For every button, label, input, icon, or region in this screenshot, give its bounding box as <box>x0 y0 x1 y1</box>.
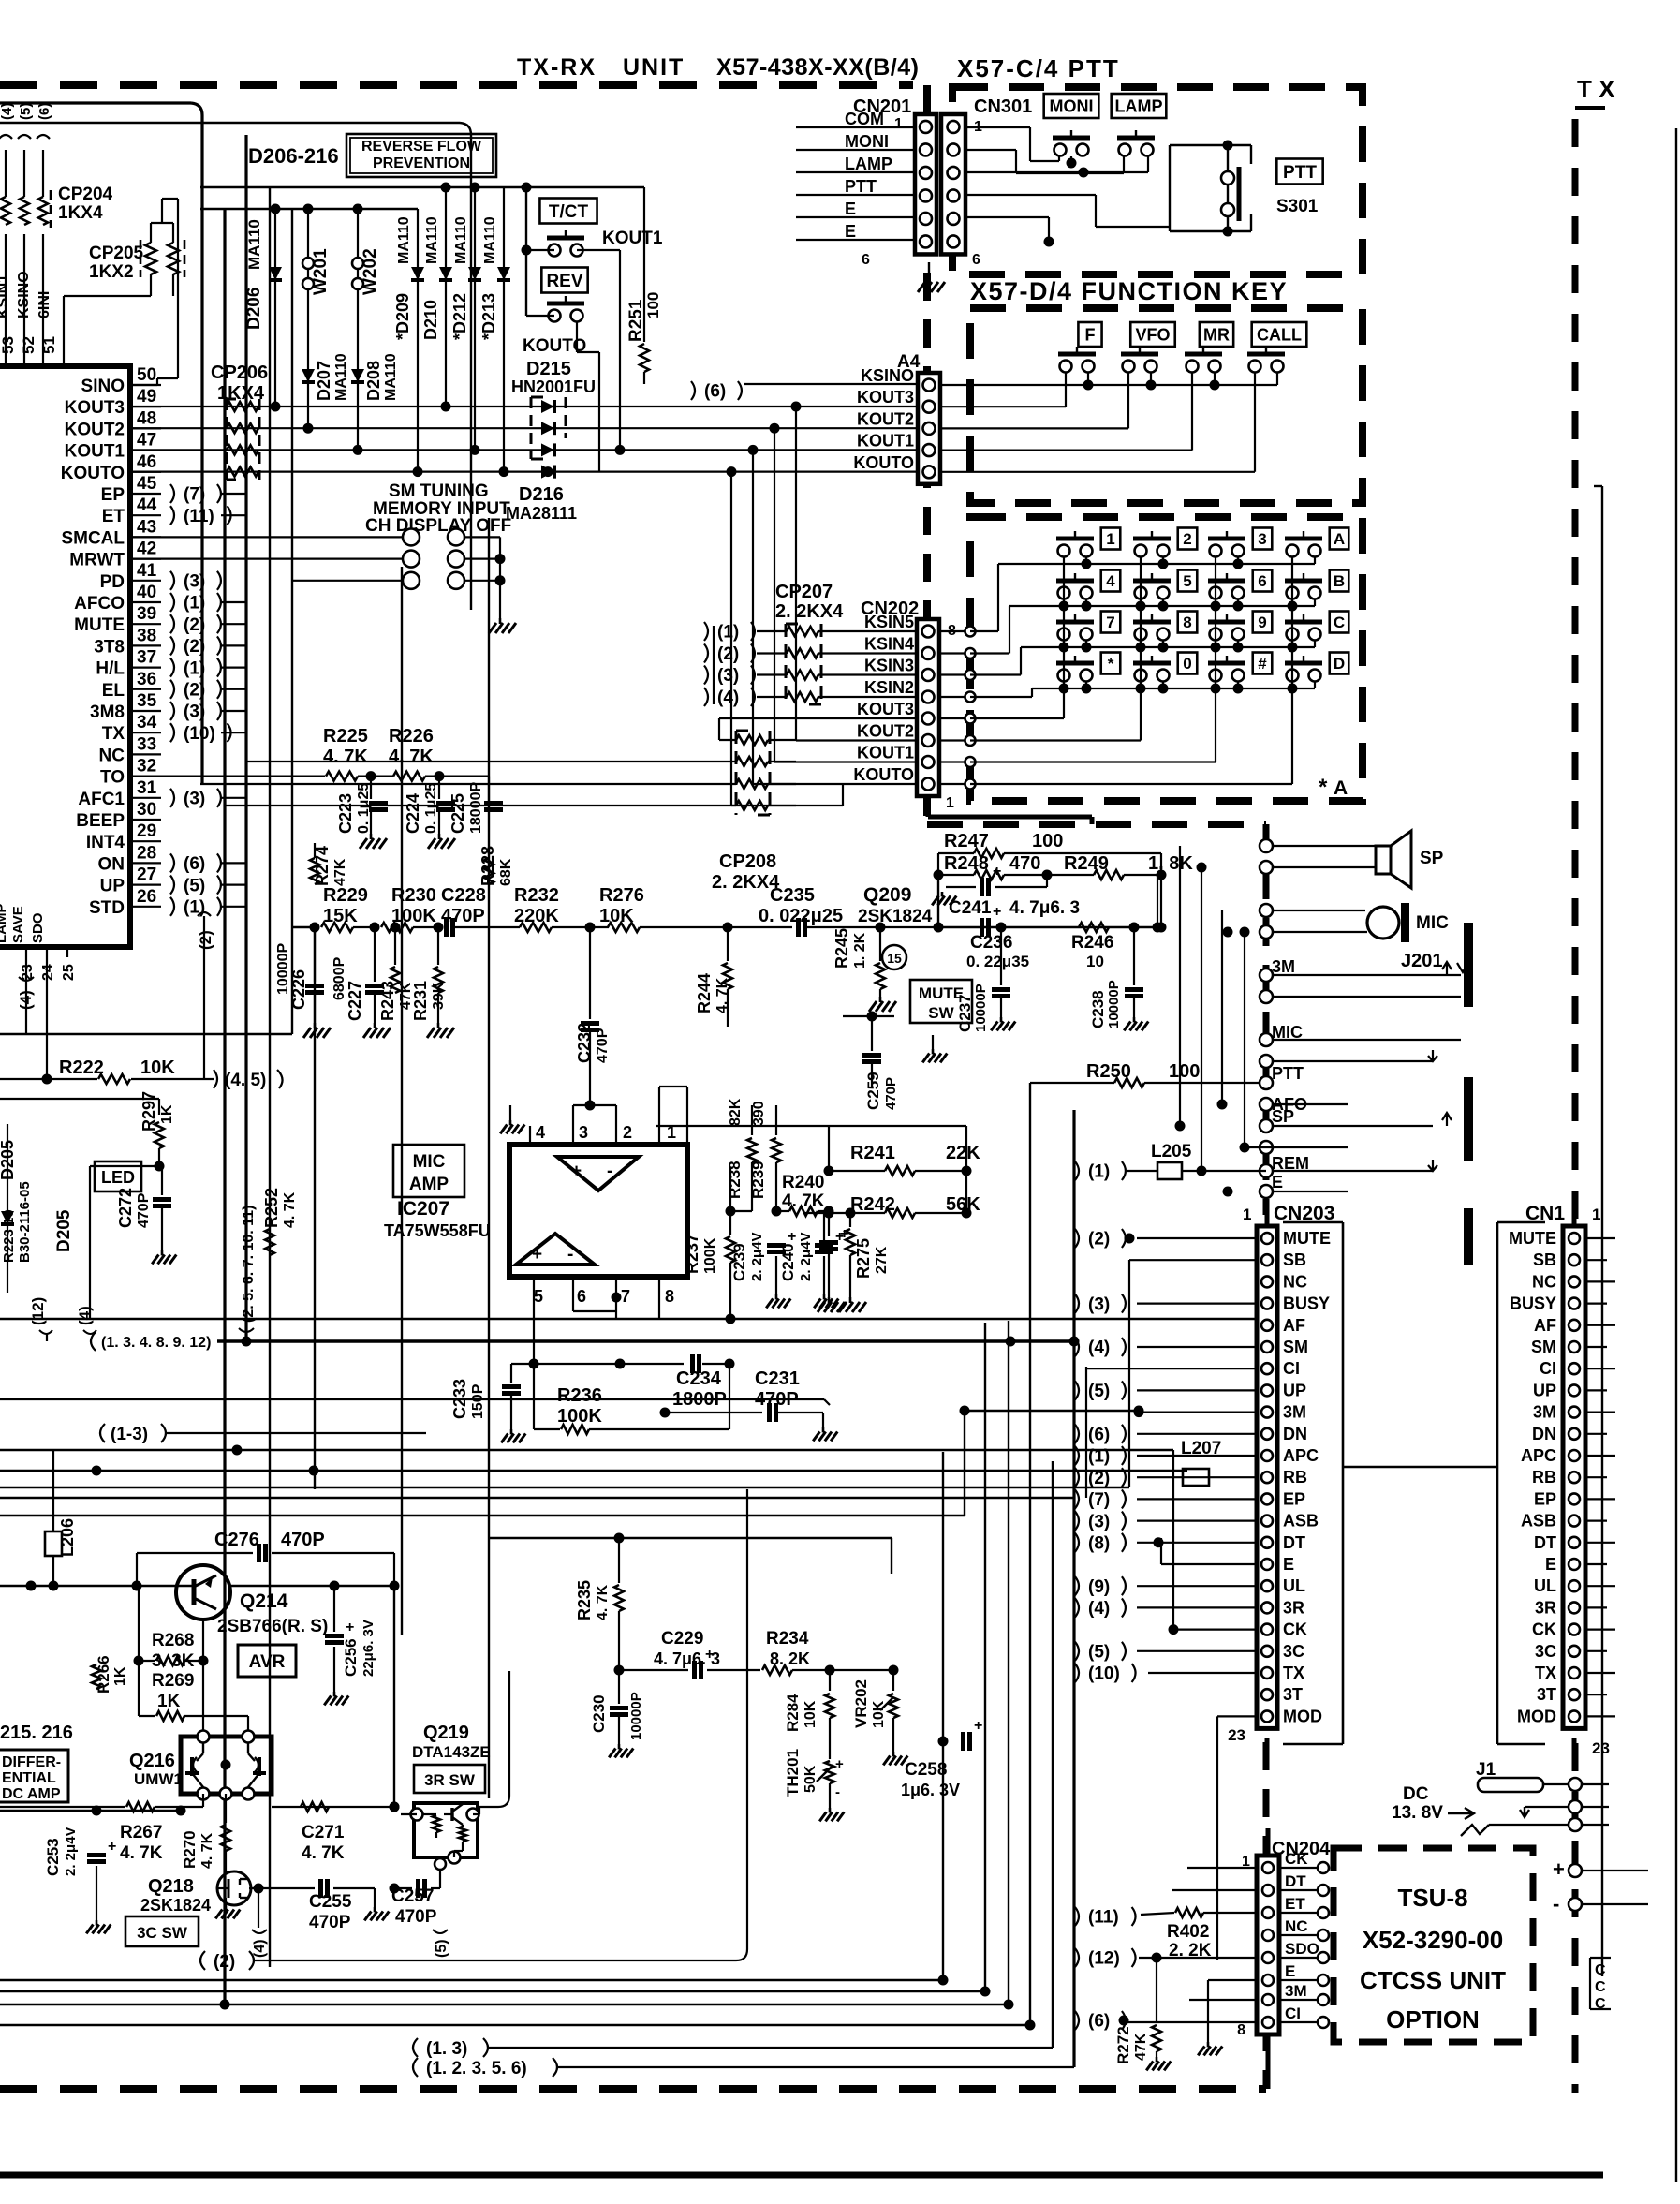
svg-text:470P: 470P <box>309 1913 351 1932</box>
bus y1599 <box>0 1497 1074 1499</box>
jack routing vertical 1 <box>1175 846 1267 1132</box>
svg-text:C228: C228 <box>441 885 486 906</box>
svg-text:STD: STD <box>89 898 125 918</box>
AVR box <box>238 1645 296 1677</box>
svg-text:MA110: MA110 <box>482 216 498 264</box>
svg-text:4. 7K: 4. 7K <box>120 1843 163 1863</box>
svg-text:DIFFER-: DIFFER- <box>2 1754 61 1770</box>
resistor R238 <box>730 1105 757 1211</box>
wire CN301 to LAMP <box>965 150 1124 173</box>
svg-text:82K: 82K <box>728 1098 744 1126</box>
hook (1,2,3,5,6) <box>0 2058 1074 2078</box>
svg-text:35: 35 <box>137 691 157 711</box>
svg-text:36: 36 <box>137 670 156 689</box>
svg-text:CP207: CP207 <box>775 582 833 602</box>
connector A4 label <box>897 352 921 372</box>
varistor VR202 <box>880 1670 907 1765</box>
svg-text:(4. 5): (4. 5) <box>225 1071 266 1090</box>
svg-text:-: - <box>1553 1892 1559 1916</box>
svg-text:C223: C223 <box>336 793 355 834</box>
wire to SP 1 <box>1260 839 1376 852</box>
svg-text:DT: DT <box>1283 1533 1305 1552</box>
REVERSE FLOW PREVENTION box <box>346 134 496 177</box>
svg-text:NC: NC <box>1532 1272 1556 1291</box>
svg-text:TA75W558FU: TA75W558FU <box>384 1221 491 1240</box>
svg-text:1. 2K: 1. 2K <box>852 932 868 969</box>
connector CN202 label <box>861 599 919 619</box>
svg-text:+: + <box>346 1620 354 1635</box>
svg-text:ET: ET <box>102 507 125 526</box>
A4 pin labels <box>853 366 914 472</box>
svg-text:R272: R272 <box>1114 2026 1132 2064</box>
DC arrow <box>1448 1808 1474 1819</box>
switch S301 PTT label <box>1276 159 1322 185</box>
svg-text:ENTIAL: ENTIAL <box>2 1770 56 1786</box>
capacitor C236 cap <box>966 904 1029 970</box>
KOUTO ref text <box>523 336 586 356</box>
resistor R248 label <box>944 853 1040 874</box>
svg-text:HN2001FU: HN2001FU <box>511 377 596 396</box>
svg-text:KOUT1: KOUT1 <box>857 432 914 451</box>
svg-text:CALL: CALL <box>1257 325 1302 344</box>
svg-text:22K: 22K <box>946 1143 980 1163</box>
svg-text:(6): (6) <box>1088 2012 1110 2032</box>
svg-text:(2): (2) <box>1088 1230 1110 1250</box>
capacitor C224 <box>428 777 455 849</box>
thermistor TH201 label <box>784 1749 818 1797</box>
svg-text:D: D <box>1334 655 1345 673</box>
capacitor C256 label <box>342 1620 376 1677</box>
ground y1527 left <box>829 1405 831 1414</box>
microphone MIC <box>1367 903 1449 942</box>
svg-text:45: 45 <box>137 474 157 494</box>
svg-text:3R: 3R <box>1535 1598 1556 1617</box>
diode D207 <box>302 369 315 382</box>
capacitor C226 <box>303 927 331 1038</box>
svg-text:(2): (2) <box>197 930 214 950</box>
svg-text:4: 4 <box>536 1123 545 1142</box>
svg-text:R229: R229 <box>323 885 368 906</box>
connector CN202 <box>917 619 939 796</box>
bus y200 <box>200 183 644 193</box>
resistor pack CP204 bracket <box>50 190 52 228</box>
resistor R272 label <box>1114 2026 1149 2064</box>
switch S301 ref <box>1276 197 1319 216</box>
resistor R239 label <box>749 1101 767 1199</box>
capacitor C225 label <box>449 782 484 834</box>
bus vertical x1077 <box>1008 1321 1009 2004</box>
svg-text:NC: NC <box>1283 1272 1307 1291</box>
svg-text:X57-C/4 PTT: X57-C/4 PTT <box>957 54 1120 82</box>
svg-text:(4): (4) <box>1088 1339 1110 1358</box>
svg-text:7: 7 <box>1106 614 1114 631</box>
resistor R242 <box>805 1208 972 1219</box>
svg-text:R230: R230 <box>391 885 436 906</box>
svg-text:KOUT1: KOUT1 <box>65 442 125 462</box>
bus ref (4)b <box>76 1306 96 1334</box>
svg-text:43: 43 <box>137 517 156 537</box>
svg-text:APC: APC <box>1283 1446 1319 1465</box>
svg-text:DT: DT <box>1534 1533 1556 1552</box>
svg-text:KOUTO: KOUTO <box>853 453 914 472</box>
capacitor C233 label <box>450 1379 486 1419</box>
svg-text:MOD: MOD <box>1517 1707 1556 1725</box>
svg-text:ASB: ASB <box>1521 1512 1556 1531</box>
wire CN301 pin5 <box>965 217 1054 247</box>
capacitor C271 label <box>302 1823 345 1863</box>
switch LAMP label <box>1112 94 1167 118</box>
svg-text:+: + <box>532 1245 542 1265</box>
wire AFO row <box>1260 1098 1348 1111</box>
ground IC207 top-left <box>500 1105 524 1133</box>
svg-text:MA28111: MA28111 <box>506 504 577 523</box>
svg-text:X57-438X-XX(B/4): X57-438X-XX(B/4) <box>716 54 919 81</box>
IC bottom pin names <box>0 904 46 944</box>
wire C271 row <box>272 1802 400 1812</box>
wire to MIC 1 <box>1260 904 1365 917</box>
resistor pack CP206 label <box>211 362 268 404</box>
resistor R297 <box>155 1115 165 1172</box>
switch MONI <box>1053 130 1090 156</box>
svg-text:MUTE: MUTE <box>1283 1229 1331 1248</box>
svg-text:C: C <box>1595 1996 1606 2012</box>
connector CN204 label <box>1242 1839 1331 1870</box>
resistor R244 label <box>695 973 730 1013</box>
svg-text:(5): (5) <box>434 1939 449 1958</box>
svg-text:C253: C253 <box>44 1838 62 1876</box>
svg-text:(10): (10) <box>184 724 215 744</box>
svg-text:C231: C231 <box>755 1368 800 1389</box>
svg-text:3M: 3M <box>1533 1403 1556 1422</box>
svg-text:R276: R276 <box>599 885 644 906</box>
wire SB row <box>1129 1260 1257 1487</box>
svg-text:(1): (1) <box>1088 1162 1110 1182</box>
resistor R236 <box>534 1364 729 1434</box>
bus y1618 <box>0 1515 965 1516</box>
hook labels top pins <box>0 103 52 120</box>
capacitor C234 label <box>672 1368 727 1410</box>
wire E row <box>1223 1185 1349 1198</box>
IC207 pin numbers bottom <box>534 1287 674 1306</box>
IC pin stub lines <box>130 385 161 907</box>
wires CP208 left feeds <box>200 762 736 806</box>
capacitor C233 <box>501 1359 538 1443</box>
CN202 bottom stub <box>928 796 1092 824</box>
svg-text:EP: EP <box>1283 1489 1305 1508</box>
resistor pack CP206 <box>227 399 259 480</box>
svg-text:10K: 10K <box>871 1700 887 1728</box>
svg-text:AF: AF <box>1283 1316 1305 1335</box>
capacitor C239 <box>766 1211 796 1308</box>
diode D208 label <box>364 353 399 401</box>
svg-text:C230: C230 <box>590 1694 608 1733</box>
svg-text:1K: 1K <box>157 1692 181 1711</box>
svg-text:(2): (2) <box>214 1952 235 1972</box>
svg-text:47K: 47K <box>1133 2033 1149 2061</box>
wire Q209 gate <box>880 926 938 928</box>
svg-text:S301: S301 <box>1276 197 1319 216</box>
wire bus y1408 <box>0 1318 1266 1320</box>
svg-text:MA110: MA110 <box>333 353 349 401</box>
svg-text:TX: TX <box>1283 1664 1304 1682</box>
wire PTT row <box>1260 1076 1273 1089</box>
svg-text:D215: D215 <box>526 359 571 379</box>
diode D205 name <box>54 1209 74 1252</box>
hook (2) vertical <box>197 912 214 1079</box>
svg-text:2. 2μ4V: 2. 2μ4V <box>749 1232 765 1281</box>
wire PD to SM <box>291 580 403 582</box>
jack body 3M <box>1464 923 1473 1007</box>
capacitor C225 <box>439 777 503 810</box>
wire CN204 3M <box>1189 1986 1257 2000</box>
bus label (1,3,4,8,9,12) <box>91 1332 211 1351</box>
CN1 pin stub wires <box>1585 1238 1676 1716</box>
wire y1173 row <box>0 1099 159 1115</box>
svg-text:27: 27 <box>137 865 156 885</box>
wire DT junction <box>1154 1537 1164 1547</box>
hook (1-3) <box>100 1424 426 1444</box>
resistor R225 label <box>323 726 368 767</box>
svg-text:R240: R240 <box>782 1173 824 1192</box>
inductor L206 <box>45 1450 62 1586</box>
svg-text:2: 2 <box>1183 530 1191 548</box>
bus vertical x1052 <box>984 1323 986 1991</box>
bus y1588 <box>0 1487 1129 1488</box>
svg-text:R284: R284 <box>784 1694 802 1732</box>
svg-text:10000P: 10000P <box>973 984 989 1032</box>
svg-text:MIC: MIC <box>1416 913 1449 933</box>
svg-text:C271: C271 <box>302 1823 345 1842</box>
transistor Q216 label <box>129 1751 183 1788</box>
svg-text:C229: C229 <box>661 1629 703 1649</box>
IC207 ref <box>397 1198 449 1220</box>
resistor R244 <box>723 927 732 1027</box>
switch MONI label <box>1044 94 1099 118</box>
svg-text:(2. 5. 6. 7. 10. 11): (2. 5. 6. 7. 10. 11) <box>241 1206 257 1323</box>
svg-text:470P: 470P <box>883 1077 899 1110</box>
bus vertical x1007 <box>0 1452 943 1980</box>
transistors 215/216 note <box>0 1723 73 1743</box>
svg-text:4. 7K: 4. 7K <box>323 747 368 767</box>
switch REV label <box>541 268 587 293</box>
capacitor C271 <box>272 1802 394 1812</box>
svg-text:100: 100 <box>1032 831 1063 851</box>
svg-text:+: + <box>705 1647 714 1663</box>
svg-text:44: 44 <box>137 496 157 515</box>
resistor R243 <box>391 923 401 994</box>
svg-text:(4): (4) <box>1088 1599 1110 1619</box>
varistor VR202 label <box>852 1679 887 1728</box>
TSU-8 dashed box <box>1334 1848 1533 2042</box>
resistor R252 label <box>262 1188 298 1228</box>
svg-text:W201: W201 <box>311 248 331 295</box>
svg-text:R249: R249 <box>1064 853 1109 874</box>
wire y2140 <box>0 2000 1014 2010</box>
svg-text:ET: ET <box>1285 1895 1305 1913</box>
svg-text:R241: R241 <box>850 1143 895 1163</box>
capacitor C256 <box>324 1586 354 1705</box>
capacitor C276 label <box>214 1530 325 1550</box>
svg-text:TX: TX <box>1535 1664 1556 1682</box>
svg-text:34: 34 <box>137 713 157 732</box>
CN201 pin6 labels <box>862 252 980 268</box>
CN203 pin labels <box>1283 1229 1331 1725</box>
svg-text:(6): (6) <box>704 382 726 402</box>
svg-text:TH201: TH201 <box>784 1749 802 1797</box>
svg-text:+: + <box>993 864 1001 880</box>
svg-text:R245: R245 <box>833 928 851 969</box>
svg-text:EL: EL <box>102 681 125 701</box>
svg-text:R251: R251 <box>626 299 646 342</box>
svg-text:KOUT3: KOUT3 <box>857 388 914 407</box>
wire CI row <box>1086 1367 1257 1498</box>
wire VR202 row <box>893 1669 1009 1671</box>
transistor Q219 label <box>412 1723 491 1761</box>
svg-text:KSIN4: KSIN4 <box>864 635 914 654</box>
varistor W202 label <box>361 248 380 295</box>
op-amp A triangle <box>557 1157 639 1191</box>
bus y1548 <box>0 1445 1173 1456</box>
resistor R269 <box>139 1661 248 1737</box>
svg-text:C276: C276 <box>214 1530 259 1550</box>
CN204 stub wires <box>1279 1862 1329 2028</box>
svg-text:AFC1: AFC1 <box>78 790 125 809</box>
svg-text:31: 31 <box>137 778 157 798</box>
svg-text:MONI: MONI <box>1050 96 1094 115</box>
IC U201 body <box>0 366 130 947</box>
wire (2) junction <box>1125 1234 1135 1244</box>
thermistor TH201 <box>817 1756 844 1821</box>
resistor R284 <box>825 1670 834 1759</box>
hook (4) q218 <box>252 1888 268 1958</box>
svg-text:APC: APC <box>1521 1446 1556 1465</box>
resistor R237 label <box>683 1234 718 1274</box>
svg-text:R247: R247 <box>944 831 989 851</box>
CN204 bottom lead <box>1266 2033 1271 2089</box>
resistor R272 <box>1146 1958 1171 2070</box>
svg-text:(12): (12) <box>1088 1949 1120 1969</box>
svg-text:37: 37 <box>137 648 156 668</box>
svg-text:NC: NC <box>99 746 125 765</box>
svg-text:CI: CI <box>1540 1359 1556 1378</box>
svg-text:CN203: CN203 <box>1274 1203 1334 1224</box>
DC wire arrow2 <box>1520 1800 1609 1817</box>
svg-text:C226: C226 <box>289 969 308 1010</box>
capacitor C230 <box>609 1665 633 1758</box>
svg-text:TX-RX: TX-RX <box>517 54 597 81</box>
svg-text:AF: AF <box>1534 1316 1556 1335</box>
wires CP208 to CN202 <box>719 718 917 806</box>
svg-text:ON: ON <box>98 854 125 874</box>
svg-text:10000P: 10000P <box>628 1692 644 1740</box>
svg-text:RB: RB <box>1532 1468 1556 1487</box>
wire y2162 <box>0 2020 1036 2031</box>
svg-text:EP: EP <box>1534 1489 1556 1508</box>
main AF row to jacks <box>938 875 1163 933</box>
svg-text:CP208: CP208 <box>719 851 776 872</box>
svg-text:10K: 10K <box>803 1700 818 1728</box>
hook (4.5) <box>214 1070 283 1090</box>
TX-RX unit top dashed border <box>0 81 913 89</box>
capacitor C231 label <box>755 1368 800 1410</box>
svg-text:CP206: CP206 <box>211 362 268 383</box>
capacitor C241 label <box>949 898 1080 918</box>
resistor R222 label <box>59 1058 175 1078</box>
svg-text:C240: C240 <box>779 1243 797 1281</box>
svg-text:MIC: MIC <box>413 1152 446 1172</box>
svg-text:1: 1 <box>1592 1206 1600 1223</box>
svg-text:6: 6 <box>972 252 980 268</box>
DIFFERENTIAL DC AMP box <box>0 1750 68 1802</box>
resistor R230 label <box>391 885 436 926</box>
svg-text:-: - <box>835 1784 840 1800</box>
svg-text:(1): (1) <box>717 623 739 643</box>
svg-text:C: C <box>1595 1962 1606 1978</box>
svg-text:CTCSS UNIT: CTCSS UNIT <box>1360 1966 1506 1994</box>
connector CN203 <box>1257 1226 1277 1728</box>
bus ref (12) <box>29 1297 52 1341</box>
svg-text:(1): (1) <box>1088 1447 1110 1467</box>
diode D210 <box>439 187 452 412</box>
svg-text:0: 0 <box>1183 655 1191 673</box>
AFO label <box>1272 1095 1307 1114</box>
capacitor C232 <box>581 923 599 1106</box>
capacitor C240 <box>814 1211 844 1308</box>
svg-text:+: + <box>1553 1857 1565 1881</box>
bottom sheet rule <box>0 2172 1603 2179</box>
capacitor C238 <box>1124 927 1148 1030</box>
svg-text:KOUT3: KOUT3 <box>857 700 914 718</box>
svg-text:3C SW: 3C SW <box>137 1924 188 1942</box>
svg-text:SB: SB <box>1533 1250 1556 1269</box>
wire KOUT1 row <box>130 445 918 784</box>
svg-text:D206-216: D206-216 <box>248 144 339 168</box>
resistor R240 label <box>782 1173 825 1211</box>
svg-text:(8): (8) <box>1088 1533 1110 1553</box>
svg-text:30: 30 <box>137 800 156 820</box>
svg-text:KOUT2: KOUT2 <box>65 420 125 439</box>
svg-text:J201: J201 <box>1401 951 1443 971</box>
resistor R266 label <box>95 1655 128 1694</box>
capacitor C235 label <box>759 885 843 926</box>
svg-text:150P: 150P <box>470 1383 486 1419</box>
diode D212 <box>468 187 481 455</box>
svg-text:H/L: H/L <box>96 659 125 679</box>
keypad *A note <box>1319 775 1348 800</box>
resistor R252 <box>265 1229 274 1255</box>
svg-text:R248: R248 <box>944 853 989 874</box>
wire to MIC 2 <box>1223 925 1368 946</box>
diode D205 labels <box>0 1140 33 1263</box>
svg-text:10000P: 10000P <box>1106 980 1122 1028</box>
resistor R268 label <box>152 1631 195 1671</box>
wires KSIN to keypad rows <box>939 564 1032 703</box>
svg-text:C272: C272 <box>116 1188 135 1228</box>
svg-text:R235: R235 <box>575 1580 594 1620</box>
svg-text:53: 53 <box>0 336 17 354</box>
svg-text:(11): (11) <box>1088 1908 1119 1928</box>
svg-text:MA110: MA110 <box>396 216 412 264</box>
svg-text:R226: R226 <box>389 726 434 747</box>
svg-text:R231: R231 <box>411 981 430 1021</box>
svg-text:1: 1 <box>1243 1206 1251 1223</box>
resistor R246 <box>1071 923 1113 970</box>
CN203 bottom lead <box>1265 1738 1270 1759</box>
fuse J1 <box>1478 1778 1609 1792</box>
CN1 top lead <box>1572 1215 1577 1225</box>
wire KOUT2 row <box>130 423 918 762</box>
svg-text:8: 8 <box>1237 2022 1245 2038</box>
